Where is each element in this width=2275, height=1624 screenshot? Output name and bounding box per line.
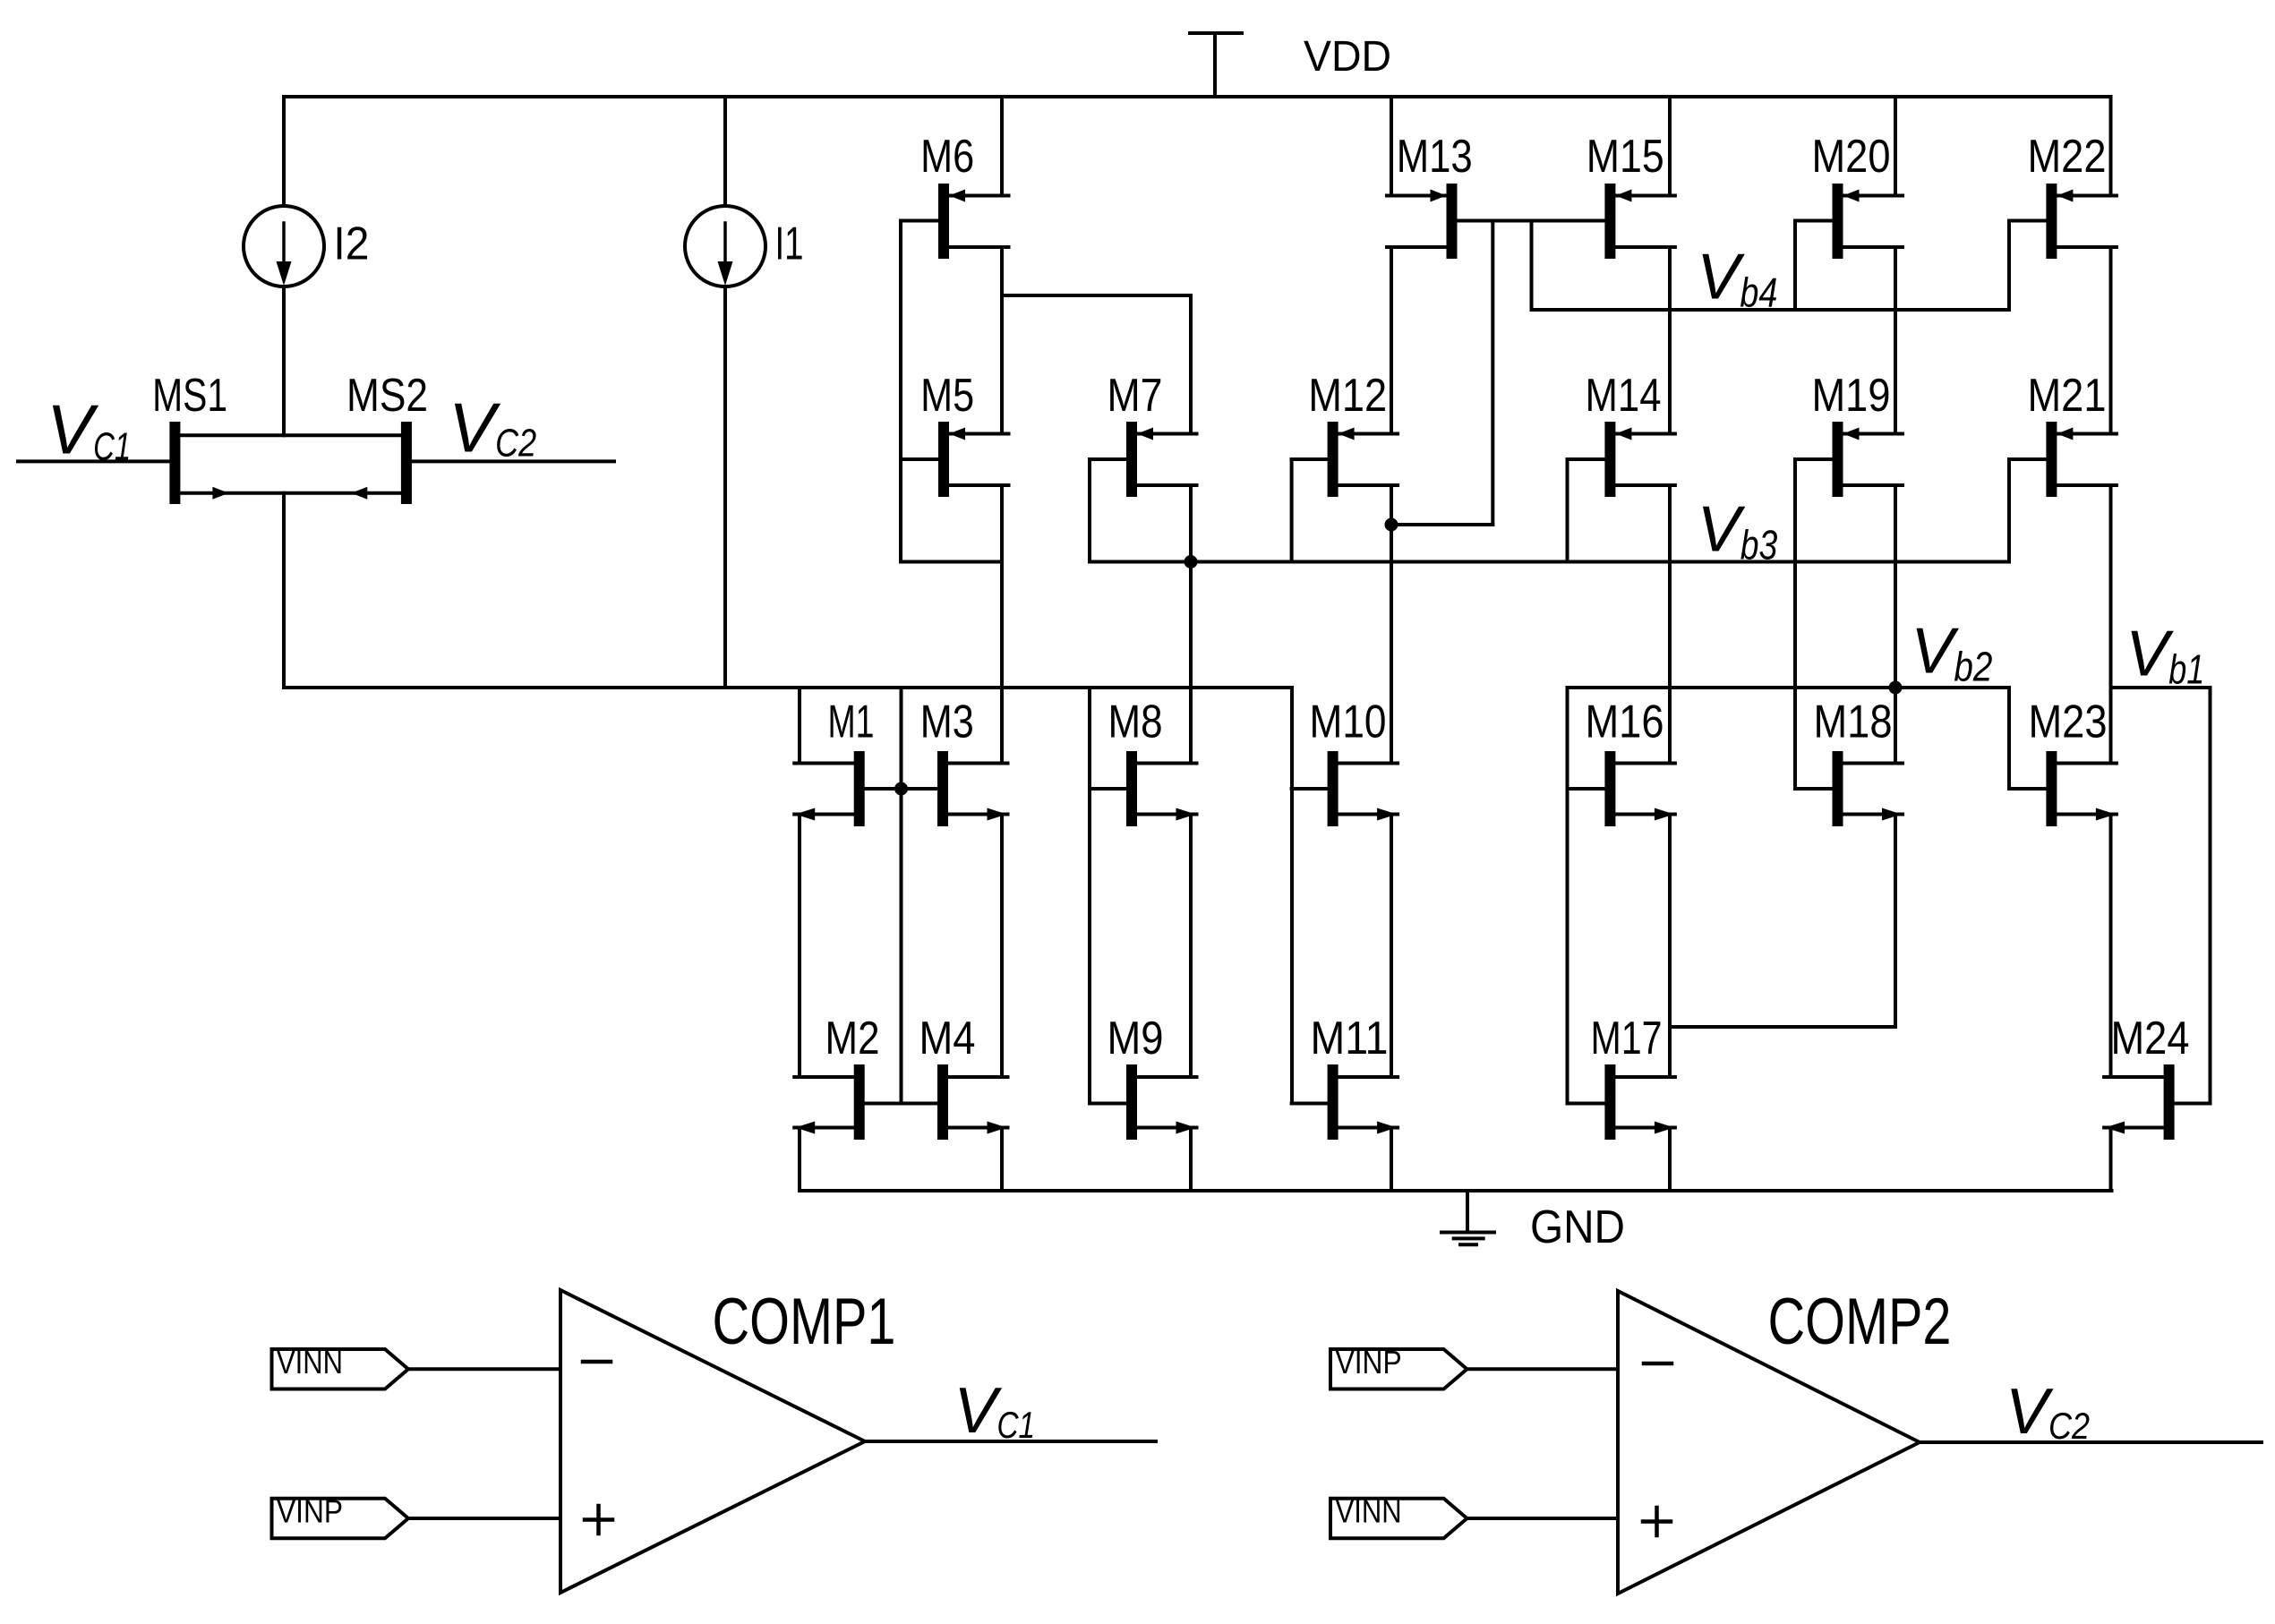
svg-text:M4: M4 <box>919 1013 976 1064</box>
wire M15 drain to M14 source <box>1668 247 1672 434</box>
transistor M23 <box>2009 697 2117 827</box>
wire M22 gate to Vb4 end <box>2007 221 2011 311</box>
transistor M19 <box>1795 370 1903 497</box>
svg-text:M2: M2 <box>825 1013 880 1064</box>
wire Vb2 bus <box>1568 686 2010 689</box>
power symbol VDD <box>1190 33 1391 97</box>
svg-text:COMP2: COMP2 <box>1768 1286 1952 1358</box>
wire M19 drain to Vb2 dot <box>1894 485 1897 764</box>
transistor MS1 <box>152 370 227 504</box>
transistor M13 <box>1387 131 1473 259</box>
node VC1 input lead <box>18 390 169 469</box>
wire M1 source to M2 drain <box>798 815 801 1078</box>
svg-text:VINP: VINP <box>277 1493 343 1530</box>
transistor M2 <box>794 1013 879 1140</box>
svg-text:MS2: MS2 <box>346 370 428 422</box>
node VC2 output <box>1920 1376 2262 1448</box>
port VINN (COMP2) <box>1330 1493 1467 1539</box>
wire M5 source to M7 source <box>1002 295 1191 434</box>
transistor M12 <box>1292 370 1398 497</box>
wire M2 source to GND <box>798 1128 801 1192</box>
svg-text:Vb4: Vb4 <box>1697 242 1777 316</box>
wire MS drain lead <box>180 433 401 437</box>
wire VINN to COMP2 plus <box>1467 1517 1619 1520</box>
wire M5 drain down to M3 drain <box>1000 485 1004 764</box>
svg-text:M17: M17 <box>1591 1013 1663 1064</box>
transistor M7 <box>1090 370 1197 497</box>
wire M12 gate down to Vb3 <box>1290 459 1294 562</box>
op-amp COMP1 <box>560 1286 896 1593</box>
wire GND rail <box>800 1189 2112 1192</box>
wire M10 source to M11 drain <box>1390 815 1393 1078</box>
wire M7 drain down to Vb3 dot <box>1189 485 1193 764</box>
transistor M11 <box>1292 1013 1398 1140</box>
port VINN (COMP1) <box>272 1344 409 1389</box>
transistor MS2 <box>346 370 428 504</box>
wire M24 source to GND <box>2109 1128 2113 1192</box>
node Vb2 junction dot <box>1889 681 1903 695</box>
node M1/M3 gate dot <box>894 782 908 796</box>
wire tail rail <box>284 686 1292 689</box>
svg-text:M8: M8 <box>1108 697 1163 748</box>
svg-text:VC1: VC1 <box>954 1375 1036 1447</box>
wire M2/M4 gate bus <box>865 1102 937 1106</box>
wire VINP to COMP1 plus <box>408 1517 560 1520</box>
transistor M8 <box>1090 697 1197 827</box>
wire M11 source to GND <box>1390 1128 1393 1192</box>
svg-text:M7: M7 <box>1108 370 1163 422</box>
wire Vb1 to M24 gate <box>2209 688 2212 1104</box>
wire VDD to M6 source <box>1000 97 1004 196</box>
wire M1 drain from tail rail <box>798 688 801 764</box>
transistor M20 <box>1795 131 1903 259</box>
op-amp COMP2 <box>1618 1286 1952 1594</box>
wire M21 drain to M23 drain <box>2109 485 2113 764</box>
svg-text:M19: M19 <box>1812 370 1891 422</box>
transistor M4 <box>919 1013 1008 1140</box>
svg-text:M16: M16 <box>1586 697 1664 748</box>
wire M7 gate down to Vb3 <box>1088 459 1091 562</box>
svg-text:Vb1: Vb1 <box>2125 618 2204 692</box>
port VINP (COMP1) <box>272 1493 409 1539</box>
svg-text:M1: M1 <box>828 697 875 748</box>
wire M16 source to M17 drain <box>1668 815 1672 1078</box>
wire VINN to COMP1 minus <box>408 1367 560 1371</box>
wire I2 to MS drain lead <box>282 286 286 435</box>
ground symbol <box>1441 1191 1625 1253</box>
svg-text:VC1: VC1 <box>47 390 131 469</box>
transistor M24 <box>2104 1013 2210 1140</box>
transistor M9 <box>1090 1013 1197 1140</box>
wire Vb1 bus <box>2111 686 2211 689</box>
transistor M5 <box>901 370 1009 497</box>
svg-text:M24: M24 <box>2111 1013 2190 1064</box>
wire M8 source to M9 drain <box>1189 815 1193 1078</box>
wire M8 drain up to Vb3 dot <box>1189 562 1193 764</box>
svg-text:Vb3: Vb3 <box>1698 493 1778 568</box>
wire M14 gate down to Vb3 <box>1566 459 1569 562</box>
svg-text:M14: M14 <box>1586 370 1662 422</box>
transistor M16 <box>1568 697 1675 827</box>
svg-text:Vb2: Vb2 <box>1911 616 1992 690</box>
svg-text:M6: M6 <box>920 131 974 183</box>
wire M12 drain down to M10 drain <box>1390 485 1393 764</box>
wire Vb4 bus <box>1532 308 2010 312</box>
wire M12 drain to M13 gate <box>1391 221 1492 526</box>
wire M21 gate to Vb3 end <box>2007 459 2011 562</box>
wire M23 source to M24 drain <box>2109 815 2113 1078</box>
svg-text:M5: M5 <box>920 370 974 422</box>
wire VDD to M13 source <box>1390 97 1393 196</box>
wire M13 drain to M12 source <box>1390 247 1393 434</box>
wire VINP to COMP2 minus <box>1467 1367 1619 1371</box>
wire MS source down <box>282 493 286 688</box>
node M12 drain dot <box>1385 518 1398 532</box>
transistor M14 <box>1568 370 1675 497</box>
svg-text:M21: M21 <box>2028 370 2107 422</box>
wire M20 drain to M19 source <box>1894 247 1897 434</box>
wire M14 drain to M16 drain <box>1668 485 1672 764</box>
transistor M15 <box>1587 131 1675 259</box>
node Vb3 junction dot <box>1185 555 1198 568</box>
wire VDD rail end to M22 source <box>2109 97 2113 196</box>
transistor M10 <box>1292 697 1398 827</box>
wire VDD left drop to I2 <box>282 97 286 206</box>
wire VDD rail <box>284 95 2111 98</box>
transistor M3 <box>902 697 1008 827</box>
wire M16/M17 gate bus <box>1566 688 1569 1104</box>
wire MS source lead with arrows <box>180 487 401 500</box>
wire I1 to tail rail <box>723 286 727 688</box>
transistor M1 <box>794 697 901 827</box>
svg-text:M23: M23 <box>2029 697 2108 748</box>
transistor M22 <box>2009 131 2117 259</box>
svg-text:M11: M11 <box>1311 1013 1389 1064</box>
svg-text:M22: M22 <box>2028 131 2107 183</box>
svg-text:M20: M20 <box>1812 131 1891 183</box>
wire M10/M11 gate bus <box>1290 688 1294 1104</box>
svg-text:M9: M9 <box>1108 1013 1164 1064</box>
svg-text:M3: M3 <box>920 697 974 748</box>
wire M6 drain to M5 source <box>1000 247 1004 434</box>
svg-text:MS1: MS1 <box>152 370 227 422</box>
wire M20 gate to Vb4 <box>1793 221 1797 311</box>
node VC2 input lead <box>412 388 614 466</box>
wire Vb4 drop from gate bus <box>1530 221 1534 311</box>
wire M9 source to GND <box>1189 1128 1193 1192</box>
wire M17 source to GND <box>1668 1128 1672 1192</box>
svg-text:M15: M15 <box>1587 131 1664 183</box>
transistor M21 <box>2009 370 2117 497</box>
svg-text:M18: M18 <box>1814 697 1893 748</box>
transistor M6 <box>901 131 1009 259</box>
wire M23 gate to Vb2 end <box>2007 688 2011 789</box>
port VINP (COMP2) <box>1330 1344 1467 1389</box>
wire M13/M15 gate bus <box>1458 219 1605 223</box>
wire M18 source to M17 drain link <box>1670 815 1895 1028</box>
wire M8/M9 gate bus <box>1088 688 1091 1104</box>
svg-text:I1: I1 <box>775 218 804 270</box>
wire M4 source to GND <box>1000 1128 1004 1192</box>
svg-text:VC2: VC2 <box>2006 1376 2090 1448</box>
svg-text:VDD: VDD <box>1304 33 1391 81</box>
svg-text:M12: M12 <box>1308 370 1387 422</box>
current source I2 <box>244 206 369 286</box>
svg-text:I2: I2 <box>333 218 369 270</box>
wire Vb3 bus <box>1090 560 2009 564</box>
svg-text:M13: M13 <box>1397 131 1473 183</box>
svg-text:VC2: VC2 <box>449 388 536 466</box>
wire VDD to M20 source <box>1894 97 1897 196</box>
wire M1/M3 gate bus <box>900 688 903 1104</box>
wire VDD to M15 source <box>1668 97 1672 196</box>
svg-text:M10: M10 <box>1310 697 1387 748</box>
current source I1 <box>685 97 804 286</box>
svg-text:GND: GND <box>1530 1201 1625 1253</box>
svg-text:VINN: VINN <box>1336 1493 1402 1530</box>
wire M3 source to M4 drain <box>1000 815 1004 1078</box>
node VC1 output <box>865 1375 1156 1447</box>
svg-text:COMP1: COMP1 <box>713 1286 896 1358</box>
svg-text:VINN: VINN <box>277 1344 343 1380</box>
transistor M18 <box>1795 697 1903 827</box>
wire M6/M5 gate bus <box>901 221 1002 562</box>
wire M22 drain to M21 source <box>2109 247 2113 434</box>
wire M19/M18 gate bus <box>1793 459 1797 789</box>
transistor M17 <box>1568 1013 1675 1140</box>
svg-text:VINP: VINP <box>1336 1344 1402 1380</box>
